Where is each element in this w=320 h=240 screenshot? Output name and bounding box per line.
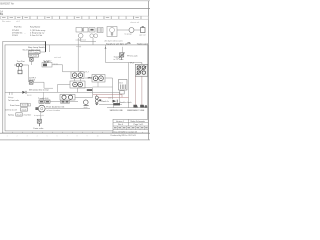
svg-text:to gauge: to gauge bbox=[125, 32, 132, 35]
svg-text:gov cut: gov cut bbox=[139, 34, 146, 37]
wire D-2 to relay bbox=[63, 71, 72, 73]
svg-text:3/8 service line to rear: 3/8 service line to rear bbox=[29, 89, 49, 92]
wire QR drop bbox=[43, 82, 45, 88]
wire gauge to fitting bbox=[134, 29, 141, 31]
pressure box 1 bbox=[29, 51, 41, 54]
main frame outer bbox=[3, 41, 148, 133]
relay lower port 1 bbox=[73, 82, 78, 87]
relay upper port 1 bbox=[72, 73, 77, 78]
svg-text:1/4 line to ctrl: 1/4 line to ctrl bbox=[5, 109, 17, 112]
fitting ticks bbox=[10, 92, 13, 95]
wire supply drop to relay bbox=[77, 38, 79, 72]
svg-text:FA: FA bbox=[128, 42, 131, 45]
gauge G2 bbox=[84, 100, 89, 105]
wire gauge right bbox=[45, 108, 90, 110]
fitting cap bbox=[142, 26, 144, 27]
air dryer AD marks bbox=[90, 29, 93, 31]
wire relay bottom drop bbox=[77, 88, 79, 93]
svg-text:dash: dash bbox=[84, 107, 88, 109]
compressor CP1 box b bbox=[83, 28, 88, 33]
compressor CP1 inner marks bbox=[82, 28, 84, 31]
ruler ticks bbox=[3, 132, 143, 133]
relay lower port 2 bbox=[78, 82, 83, 87]
emergency line red run 2 bbox=[99, 96, 129, 98]
svg-text:Spring: Spring bbox=[8, 115, 14, 117]
title block row line 3 bbox=[113, 129, 148, 131]
quick release valve QR-1 bbox=[29, 81, 33, 84]
gladhand drop bbox=[113, 106, 115, 108]
svg-text:B1: B1 bbox=[0, 12, 4, 16]
wire D-2 right bbox=[52, 64, 63, 66]
svg-text:3: 3 bbox=[27, 135, 28, 137]
svg-text:2: 2 bbox=[17, 135, 18, 137]
wire compressor to dryer bbox=[81, 41, 96, 43]
wire SR1 right drop bbox=[112, 78, 114, 99]
svg-text:Treadle E-6: Treadle E-6 bbox=[38, 98, 49, 100]
title block small cells bbox=[118, 126, 145, 130]
svg-text:wet tank: wet tank bbox=[54, 56, 61, 59]
svg-text:3 Gov D-2 kit: 3 Gov D-2 kit bbox=[30, 34, 43, 37]
test port gauge pair bbox=[16, 64, 19, 67]
main frame inner bbox=[5, 45, 148, 131]
svg-text:Check Iv: Check Iv bbox=[101, 101, 109, 103]
title block row line 1 bbox=[113, 122, 148, 124]
fitting body bbox=[141, 28, 146, 33]
junction cluster arrows bbox=[113, 100, 117, 103]
SR-1 port 1 bbox=[93, 76, 98, 81]
tractor protection valve TP bbox=[135, 64, 147, 76]
svg-text:supply: supply bbox=[76, 46, 81, 48]
title block divider v1 bbox=[127, 119, 129, 126]
air dryer AD box bbox=[89, 28, 95, 33]
relay upper port 2 bbox=[78, 73, 83, 78]
svg-text:PP-1 valve: PP-1 valve bbox=[30, 52, 39, 54]
header rule bbox=[0, 8, 150, 10]
revision cell strip bbox=[1, 16, 149, 19]
gladhand rail upper bbox=[99, 103, 122, 105]
svg-text:8: 8 bbox=[77, 135, 78, 137]
wire dcv right bbox=[75, 97, 93, 99]
ruler digits bbox=[7, 135, 99, 137]
relay valve lower body bbox=[70, 81, 85, 88]
governor GOV stem bbox=[111, 33, 113, 37]
svg-text:6: 6 bbox=[57, 135, 58, 137]
svg-text:10: 10 bbox=[97, 135, 99, 137]
wire relay left drop bbox=[57, 85, 59, 93]
service line long run bbox=[58, 91, 120, 93]
svg-text:Front brake line 1/4: Front brake line 1/4 bbox=[46, 106, 65, 109]
SR-1 spring brake valve body bbox=[92, 75, 105, 83]
wire D-2 drop bbox=[62, 65, 64, 72]
wire SR1 right bbox=[105, 77, 113, 79]
wire relay right to SR1 bbox=[85, 77, 92, 79]
svg-text:9: 9 bbox=[87, 135, 88, 137]
svg-text:TP-3: TP-3 bbox=[130, 62, 134, 64]
title block outer bbox=[113, 119, 148, 133]
notes row 3 box bbox=[16, 113, 22, 116]
compressor CP1 box a bbox=[76, 28, 82, 33]
gauge G2 base bbox=[84, 104, 89, 106]
title block row line 2 bbox=[113, 125, 148, 127]
gauge circle right bbox=[129, 28, 134, 33]
PP-DC arrow bbox=[119, 52, 125, 58]
notes row 1 box bbox=[21, 103, 28, 106]
sheet bottom border bbox=[0, 139, 150, 141]
arrow on supply drop bbox=[105, 47, 107, 49]
svg-text:To front axle: To front axle bbox=[8, 99, 20, 102]
svg-text:1: 1 bbox=[7, 135, 8, 137]
svg-text:to front chamber: to front chamber bbox=[46, 109, 60, 112]
gladhand blob mid bbox=[113, 103, 120, 105]
wire TP drop bbox=[141, 63, 143, 65]
check valve stack bbox=[95, 95, 99, 106]
sheet right border bbox=[147, 1, 149, 140]
notes row 1 tail bbox=[28, 104, 30, 106]
gauge DG-2 left marks bbox=[35, 107, 38, 110]
wire dryer down bbox=[92, 38, 94, 45]
svg-text:Produced by BW Inc 2674 r03: Produced by BW Inc 2674 r03 bbox=[111, 134, 136, 137]
wire park valve down bbox=[30, 61, 32, 65]
D-2 top bumps bbox=[44, 61, 46, 62]
wire test port right bbox=[22, 64, 28, 66]
strip cell text marks bbox=[2, 17, 139, 18]
svg-text:sht 1: sht 1 bbox=[16, 20, 20, 23]
svg-text:EMERGENCY LINE: EMERGENCY LINE bbox=[127, 110, 145, 112]
wire drop left of governor cluster bbox=[45, 41, 47, 52]
test port legs bbox=[18, 67, 21, 71]
rear axle dark label bbox=[87, 89, 92, 91]
wire TP down 2 red bbox=[141, 76, 143, 107]
wire TP down red bbox=[134, 76, 136, 107]
wire treadle right bbox=[50, 101, 78, 103]
svg-text:Air dryer (desiccant): Air dryer (desiccant) bbox=[105, 39, 123, 42]
wire x119.5 drop bbox=[119, 92, 121, 104]
SR-1 port 2 bbox=[99, 76, 104, 81]
drain valve DV-2 bbox=[37, 119, 41, 126]
svg-text:5: 5 bbox=[47, 135, 48, 137]
svg-text:4: 4 bbox=[37, 135, 38, 137]
emergency line red run 1 bbox=[93, 94, 122, 96]
wire QR bottom run bbox=[44, 87, 53, 89]
svg-text:chamber: chamber bbox=[23, 115, 31, 117]
svg-text:Rev notes: Rev notes bbox=[2, 20, 11, 23]
svg-text:BW5057 Air: BW5057 Air bbox=[0, 2, 14, 6]
svg-text:PP-DC park: PP-DC park bbox=[127, 56, 138, 58]
compressor CP1 wheel bbox=[78, 33, 83, 38]
wire check valve right bbox=[27, 91, 58, 93]
drain fitting box bbox=[18, 70, 22, 74]
governor GOV gauge circle bbox=[110, 28, 115, 33]
air dryer purge tanks bbox=[90, 34, 94, 38]
treadle feed drop bbox=[43, 92, 45, 99]
svg-text:27001: 27001 bbox=[12, 35, 19, 37]
wire drop x49.5 bbox=[49, 45, 51, 52]
wire relay left bbox=[58, 84, 71, 86]
svg-text:7: 7 bbox=[67, 135, 68, 137]
wire gauge down bbox=[40, 112, 42, 119]
D-2 governor box bbox=[42, 63, 52, 68]
svg-text:Front hose: Front hose bbox=[10, 104, 20, 107]
air dryer AD box 2 bbox=[97, 28, 103, 33]
gladhand coupling 2 bbox=[140, 105, 144, 108]
gladhand coupling 1 bbox=[133, 105, 137, 108]
check valve CV-F bbox=[22, 91, 25, 94]
D-2 governor marks bbox=[43, 64, 47, 67]
svg-text:double check: double check bbox=[120, 102, 132, 104]
svg-text:30-30: 30-30 bbox=[22, 105, 27, 107]
svg-text:SC-3: SC-3 bbox=[27, 95, 31, 97]
wire QR right bbox=[33, 81, 44, 83]
svg-text:compressor: compressor bbox=[76, 40, 87, 42]
supply drop to TP wire bbox=[105, 45, 107, 63]
svg-text:fittings: fittings bbox=[8, 96, 14, 99]
svg-text:chassis ref: chassis ref bbox=[130, 21, 140, 24]
front axle wire bbox=[5, 91, 22, 93]
PP-DC valve bbox=[119, 53, 123, 60]
governor GOV body bbox=[107, 27, 117, 37]
wire relay bottom run y88 bbox=[78, 87, 93, 89]
svg-text:Rev 4: Rev 4 bbox=[118, 124, 123, 126]
gauge DG-2 circle bbox=[38, 105, 45, 112]
svg-text:to spring ch: to spring ch bbox=[34, 114, 44, 117]
TP feed run bbox=[106, 62, 129, 64]
wire bus x128.5 bbox=[128, 63, 130, 108]
mid cluster marks bbox=[61, 100, 70, 103]
wire governor right bbox=[117, 29, 129, 31]
wire SR1 bottom drop bbox=[97, 82, 99, 87]
svg-text:serv: serv bbox=[108, 98, 111, 100]
stoplight box W bbox=[119, 80, 128, 91]
sheet top border bbox=[0, 0, 150, 2]
svg-text:Key Name: Key Name bbox=[30, 27, 41, 29]
gladhand coupling small bbox=[145, 105, 148, 107]
red vertical bbox=[121, 95, 123, 98]
small box under SLS bbox=[120, 91, 124, 94]
svg-text:Test Port: Test Port bbox=[17, 60, 25, 63]
svg-text:24-24: 24-24 bbox=[22, 109, 27, 111]
stoplight box marks bbox=[121, 85, 126, 90]
svg-text:Drain valve: Drain valve bbox=[33, 128, 44, 130]
test port stub bbox=[14, 64, 16, 66]
gladhand rail lower bbox=[107, 107, 147, 109]
wire SR1 bottom run bbox=[93, 86, 113, 88]
bottom zone ruler bbox=[0, 132, 150, 134]
wire TP top run bbox=[129, 62, 142, 64]
svg-text:Part No: Part No bbox=[14, 26, 22, 29]
treadle box 2 bbox=[45, 100, 50, 103]
park valve symbol bbox=[30, 58, 34, 61]
wire bus to quick release bbox=[29, 81, 35, 83]
wire compressor down bbox=[80, 38, 82, 42]
svg-text:SERVICE LINE: SERVICE LINE bbox=[110, 110, 124, 112]
relay valve upper body bbox=[71, 72, 84, 79]
wire top to PP-DC bbox=[122, 47, 124, 53]
svg-text:Brake Schematic: Brake Schematic bbox=[131, 120, 145, 123]
svg-text:Page 1 of 1: Page 1 of 1 bbox=[134, 124, 144, 126]
pressure box 2 bbox=[29, 54, 39, 57]
treadle box 1 bbox=[39, 100, 44, 103]
svg-text:Version 1: Version 1 bbox=[116, 120, 124, 123]
svg-text:20-20: 20-20 bbox=[17, 114, 22, 116]
notes row 2 box bbox=[21, 108, 28, 111]
double check valve cluster bbox=[60, 95, 75, 101]
wire gov box to drop bbox=[40, 51, 46, 53]
svg-text:PP-7 ctrl: PP-7 ctrl bbox=[30, 54, 38, 57]
wire x92.5 drop bbox=[92, 88, 94, 98]
relay interlinks bbox=[75, 79, 81, 82]
wire bus down x28.5 bbox=[28, 65, 30, 82]
